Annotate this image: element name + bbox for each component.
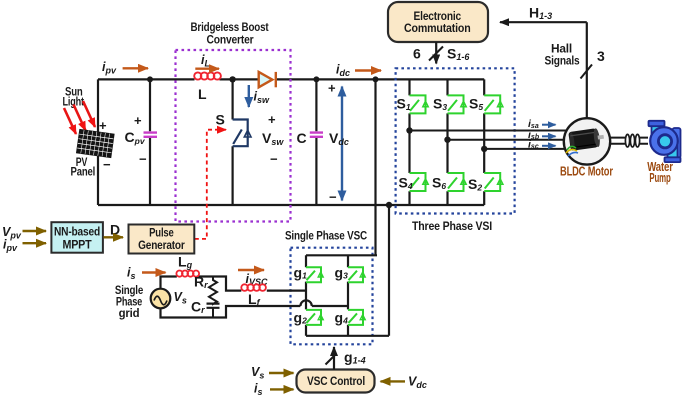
AC source circle: [151, 289, 171, 309]
node junction C top: [313, 76, 319, 82]
node junction phase c: [481, 146, 487, 152]
arrow ivsc: [238, 269, 264, 271]
wire VSC right leg: [347, 255, 349, 335]
transistor g2: [306, 310, 323, 325]
arrow isb: [542, 135, 556, 137]
arrow ipv input: [23, 242, 47, 244]
svg-text:+: +: [99, 118, 107, 133]
svg-text:Commutation: Commutation: [404, 21, 471, 35]
transistor g3: [348, 267, 365, 282]
transistor S6: [448, 173, 467, 191]
wire VSI leg3: [483, 79, 485, 205]
slash g1-4: [326, 354, 337, 365]
wire phase a: [410, 130, 567, 132]
svg-text:Pump: Pump: [649, 170, 670, 185]
svg-text:+: +: [328, 81, 336, 96]
wire grid top: [161, 277, 307, 291]
svg-text:+: +: [134, 113, 142, 128]
slash hall 3: [581, 65, 593, 79]
resistor Rr: [209, 277, 217, 304]
svg-text:D: D: [110, 222, 120, 238]
svg-text:3: 3: [597, 48, 605, 64]
transistor S2: [484, 173, 503, 191]
arrow is: [142, 271, 166, 273]
electronic commutation box: [388, 2, 488, 42]
svg-text:grid: grid: [119, 308, 140, 320]
arrow gate red: [215, 129, 226, 131]
node junction phase a: [406, 127, 412, 133]
arrow isa: [542, 124, 556, 126]
wire vsc feed vertical: [374, 79, 376, 255]
wire C branch: [315, 79, 317, 205]
arrow is control: [270, 388, 294, 390]
wire Cpv branch: [149, 79, 151, 205]
wire hall feedback horizontal: [500, 21, 587, 23]
wire Cr leads: [212, 303, 214, 318]
svg-text:Pulse: Pulse: [149, 228, 174, 240]
svg-text:−: −: [103, 157, 111, 172]
shaft coupling: [610, 138, 648, 144]
arrow iL: [195, 67, 219, 69]
svg-text:Panel: Panel: [71, 167, 96, 179]
AC sine symbol: [154, 296, 167, 305]
svg-text:Phase: Phase: [116, 296, 142, 308]
water pump icon: [649, 121, 681, 162]
wire switch leg: [232, 79, 234, 205]
transistor S3: [448, 95, 467, 113]
svg-text:MPPT: MPPT: [63, 240, 92, 252]
arrow Vdc double: [341, 87, 343, 201]
boost converter dashed box: [176, 50, 291, 222]
node junction vsc return: [386, 202, 392, 208]
wire VSC left leg: [305, 255, 307, 335]
BLDC motor body: [568, 127, 605, 151]
transistor S4: [410, 173, 429, 191]
inductor Lf: [241, 284, 266, 291]
transistor g4: [348, 310, 365, 325]
svg-text:VSC Control: VSC Control: [307, 374, 365, 388]
arrow Vpv: [23, 230, 47, 232]
transistor switch S: [233, 120, 251, 147]
wire VSC top bus: [306, 254, 377, 256]
NN-based MPPT box: [51, 222, 103, 253]
diode D boost: [259, 72, 276, 87]
transistor S1: [410, 95, 429, 113]
wire VSI leg2: [446, 79, 448, 205]
svg-text:6: 6: [413, 46, 421, 62]
svg-text:−: −: [329, 190, 337, 205]
wire VSC bottom bus: [306, 335, 389, 337]
arrow commutation to VSI: [435, 42, 437, 64]
svg-text:Single Phase VSC: Single Phase VSC: [285, 229, 367, 243]
arrow idc: [355, 69, 381, 71]
arrow isw: [248, 85, 250, 107]
BLDC motor circle: [564, 118, 610, 164]
transistor g1: [306, 267, 323, 282]
arrow Vdc control: [381, 380, 406, 382]
svg-text:−: −: [139, 152, 147, 167]
svg-text:BLDC Motor: BLDC Motor: [560, 163, 613, 178]
wire VSI leg1: [408, 79, 410, 205]
sun ray arrows: [64, 101, 95, 134]
gate red dashed wire: [195, 130, 215, 239]
inductor Lg: [176, 271, 199, 277]
svg-text:Generator: Generator: [138, 240, 185, 252]
capacitor C: [310, 133, 323, 137]
arrow ipv: [123, 67, 148, 69]
arrow Vs control: [269, 372, 294, 374]
wire hop to right leg: [312, 305, 348, 307]
node junction vsc feed top: [373, 76, 379, 82]
wire phase c: [484, 148, 565, 150]
arrow g1-4 up: [333, 347, 335, 370]
wire left bus: [97, 79, 99, 205]
svg-text:L: L: [198, 86, 207, 102]
capacitor Cpv: [144, 133, 158, 137]
svg-text:Single: Single: [115, 285, 143, 297]
wire hop over leg: [300, 300, 311, 306]
svg-text:Signals: Signals: [545, 54, 580, 68]
arrow D: [104, 236, 124, 238]
wire top bus: [98, 78, 484, 80]
single phase VSC dashed box: [291, 248, 373, 345]
slash s1-6: [429, 47, 443, 61]
svg-text:Three Phase VSI: Three Phase VSI: [412, 219, 492, 233]
motor wires colored: [566, 146, 578, 156]
arrow isc: [542, 145, 556, 147]
PV panel: [77, 129, 115, 157]
svg-text:C: C: [297, 130, 307, 146]
svg-text:−: −: [270, 152, 278, 167]
wire phase b: [448, 139, 565, 141]
inductor L: [194, 72, 221, 79]
node junction phase b: [444, 137, 450, 143]
node junction switch top: [229, 76, 235, 82]
wire grid bottom: [161, 306, 301, 318]
three phase VSI dashed box: [396, 68, 515, 213]
node junction Cpv top: [147, 76, 153, 82]
wire bottom bus: [98, 204, 484, 206]
transistor S5: [484, 95, 503, 113]
wire hall vertical: [586, 22, 588, 118]
svg-text:NN-based: NN-based: [54, 227, 100, 239]
svg-text:+: +: [268, 112, 276, 127]
svg-text:Converter: Converter: [207, 33, 254, 47]
capacitor Cr: [207, 304, 220, 308]
pulse generator box: [129, 225, 195, 254]
wire vsc return vertical: [388, 205, 390, 336]
VSC control box: [297, 370, 375, 393]
svg-text:S: S: [216, 112, 225, 128]
